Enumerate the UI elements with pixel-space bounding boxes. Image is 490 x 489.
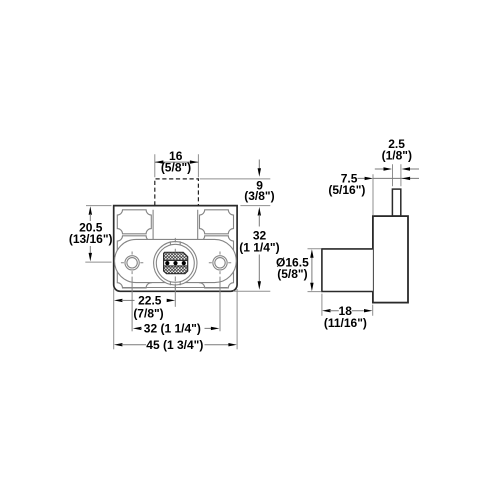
dim 32 bottom line and arrows [133,327,220,330]
dim 32 vertical line with arrows [258,207,261,290]
front view lock body outline [114,206,237,292]
right hole centerline ticks [209,252,231,275]
dashed spindle rectangle [155,179,199,206]
dim 16 text [161,149,191,174]
center cylinder inner ring [156,244,194,282]
svg-text:45 (1 3/4"): 45 (1 3/4") [146,338,203,352]
dim 16 line [155,161,199,163]
right mounting hole [213,256,227,270]
dim 2.5 text [382,137,412,163]
keyway plug hatched bands [163,251,189,274]
lower backplate notched rect left [117,236,151,288]
dim 22.5 text [133,294,163,321]
bottom extension line body left [113,289,115,350]
dim 22.5 line and arrows [114,299,175,302]
svg-text:(5/8"): (5/8") [161,161,191,175]
dim 18 extension lines [322,294,373,316]
dim 2.5 line and arrows [375,167,419,170]
svg-text:(1/8"): (1/8") [382,149,412,163]
dim 18 text [324,304,367,330]
dim 45 text [146,338,203,352]
center cylinder boss outer circle [154,242,197,285]
dim 7.5 line and arrows [358,177,420,180]
dim 20.5: top extension line left [86,205,112,207]
bottom plate ledge line [123,287,228,289]
body bottom extension right [233,290,270,292]
dim 9 text [244,179,274,203]
dim 20.5 text [69,220,113,246]
centerline left hole down [131,277,133,332]
svg-text:(5/8"): (5/8") [277,267,307,281]
backplate notched square top-left [117,210,151,234]
side view spindle stem [392,189,400,216]
svg-text:(11/16"): (11/16") [324,316,367,330]
bottom extension line body right [236,289,238,349]
body top extension right [240,205,270,207]
keyway pin dots [165,261,186,265]
svg-text:(5/16"): (5/16") [328,183,365,197]
dim 18 line and arrows [322,309,373,312]
dim 9 arrow down [258,160,261,177]
svg-text:(7/8"): (7/8") [133,307,163,321]
left mounting hole [125,256,139,270]
dim 20.5 arrows and line [89,206,92,261]
dim 9: extension line from dashed top right [200,178,271,180]
backplate notched square top-right [200,210,234,234]
dim 45 line and arrows [114,343,237,346]
dim dia 16.5 text [276,256,309,282]
svg-text:22.5: 22.5 [138,294,162,308]
ring tab notches top and bottom [170,241,180,285]
lower backplate notched rect right [200,236,234,288]
dim 16: extension lines up from dashed rect [155,154,199,177]
dim 7.5 text [328,171,365,196]
center slot vertical edges [153,210,198,240]
side view body [322,249,373,292]
side view cylinder front plate [373,216,408,303]
center boss centerline ticks [174,238,176,290]
dim dia 16.5 extension lines [308,249,322,292]
svg-text:(3/8"): (3/8") [244,189,274,203]
svg-text:32 (1 1/4"): 32 (1 1/4") [144,321,201,335]
dim 7.5 extension line [372,174,374,215]
svg-text:(13/16"): (13/16") [69,232,113,246]
dim 20.5 bottom extension line left [85,261,111,263]
left hole centerline ticks [121,252,143,275]
dim dia 16.5 line and arrows [310,249,313,291]
dim 2.5 extension lines [393,164,401,186]
stadium boss plate [115,239,237,282]
dim 16 arrows [155,160,199,163]
dim 32 vertical text [239,229,279,255]
keyway plug outline [164,252,188,273]
keyway band edges [164,260,188,266]
centerline center down [174,284,176,307]
dim 32 bottom text [144,321,201,335]
svg-text:(1 1/4"): (1 1/4") [239,240,279,254]
centerline right hole down [219,277,221,332]
